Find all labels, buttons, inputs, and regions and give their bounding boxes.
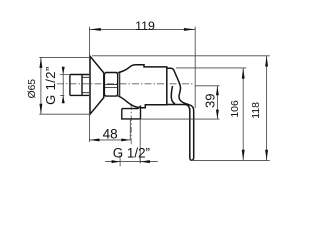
dim 119 extension line right: [194, 27, 196, 108]
dim 48 line: [90, 139, 131, 141]
svg-text:Ø65: Ø65: [27, 79, 38, 99]
svg-text:G 1/2”: G 1/2”: [43, 66, 58, 105]
dim G1/2 left line: [60, 67, 70, 104]
escutcheon cone: [90, 56, 104, 114]
hex nut: [104, 73, 117, 97]
dim G1/2 bottom arrows: [112, 160, 150, 163]
dim G1/2 bottom extension stubs: [120, 155, 140, 166]
outlet vertical centerline: [130, 104, 132, 146]
dim 118 arrows: [265, 56, 268, 161]
dim 106 top extension line: [176, 67, 246, 69]
dim 119 arrows: [90, 28, 196, 31]
svg-text:39: 39: [203, 94, 218, 108]
washer ring between nut and bell: [119, 73, 121, 96]
dim 106 arrows: [242, 68, 245, 160]
dim 106 line: [242, 68, 244, 160]
outlet collar nut: [122, 106, 141, 119]
dim 118/106 bottom extension line: [191, 159, 270, 161]
dim dia65 arrows: [39, 57, 42, 114]
dim dia65 top extension line: [39, 56, 90, 58]
svg-text:G 1/2”: G 1/2”: [113, 146, 150, 161]
dim 39 bottom extension line: [141, 118, 220, 120]
dim 118 top extension line: [92, 55, 270, 57]
main horizontal centerline: [57, 83, 193, 85]
dim G1/2 bottom line and tails: [105, 161, 158, 163]
dim 39 top extension line: [195, 85, 220, 87]
dim 39 arrows: [216, 86, 219, 119]
dim 48 arrows: [90, 138, 131, 141]
handle lever: [167, 68, 194, 160]
dim G1/2 left arrows: [62, 67, 65, 103]
svg-text:118: 118: [250, 102, 262, 119]
outlet thread edge lines: [130, 119, 140, 163]
wall nipple G1/2: [70, 75, 90, 96]
svg-text:106: 106: [229, 100, 241, 118]
dim 118 line: [266, 56, 268, 161]
dim 39 line: [216, 86, 218, 119]
svg-text:119: 119: [135, 19, 155, 33]
dim dia65 line: [40, 57, 42, 114]
svg-text:48: 48: [103, 127, 118, 142]
dim 119 extension line left (also 48 ext / escutcheon edge): [89, 27, 91, 142]
dim dia65 bottom extension line: [39, 113, 91, 115]
dim 119 line: [90, 28, 196, 30]
valve body (bell + cartridge cap): [118, 65, 167, 108]
